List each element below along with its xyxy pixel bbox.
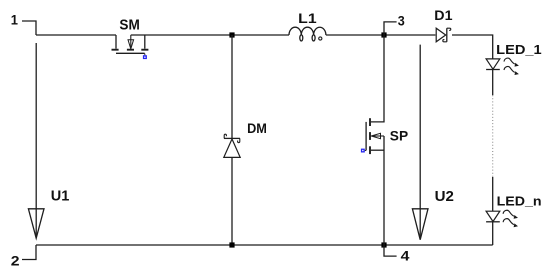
node 4 [384, 245, 410, 263]
wire SP drain [371, 35, 384, 122]
LED LED_1 [486, 42, 542, 75]
wire LED_n upper [492, 177, 494, 211]
svg-text:SM: SM [119, 18, 139, 34]
wire dotted LED string [492, 95, 494, 177]
wire D1 to LED column [452, 35, 493, 59]
wire top rail left [36, 34, 116, 36]
node 3 [384, 13, 405, 35]
wire node 1 stub [22, 21, 36, 35]
wire DM upper [231, 35, 233, 138]
voltmeter arrow U1 [28, 43, 69, 238]
junction DM bottom [229, 242, 234, 247]
wire top rail right [326, 34, 436, 36]
svg-text:SP: SP [390, 128, 408, 144]
wire LED_n lower [492, 222, 494, 245]
node 1 [11, 13, 19, 28]
svg-text:4: 4 [401, 248, 410, 263]
svg-text:D1: D1 [434, 7, 452, 23]
wire LED_1 lower [492, 70, 494, 96]
junction node 3 right [381, 32, 386, 37]
transistor SM [112, 18, 149, 60]
svg-text:U2: U2 [435, 188, 454, 205]
svg-text:L1: L1 [298, 10, 317, 26]
diode D1 [434, 7, 452, 42]
inductor L1 [289, 10, 326, 41]
voltmeter arrow U2 [412, 45, 454, 240]
svg-text:1: 1 [11, 13, 19, 28]
svg-text:3: 3 [398, 13, 405, 28]
diode DM [224, 120, 267, 158]
svg-text:U1: U1 [51, 187, 70, 204]
node 2 [11, 245, 36, 268]
junction node 4 [381, 242, 386, 247]
svg-text:LED_1: LED_1 [496, 42, 542, 57]
wire bottom rail [36, 244, 493, 246]
svg-text:LED_n: LED_n [497, 193, 542, 208]
LED LED_n [486, 193, 542, 227]
transistor SP [361, 118, 408, 154]
svg-text:2: 2 [11, 253, 20, 268]
wire DM lower [231, 157, 233, 245]
wire top rail middle [131, 34, 289, 36]
wire SP source [383, 136, 385, 245]
svg-text:DM: DM [247, 120, 267, 136]
junction node 3 left (DM top) [229, 32, 234, 37]
